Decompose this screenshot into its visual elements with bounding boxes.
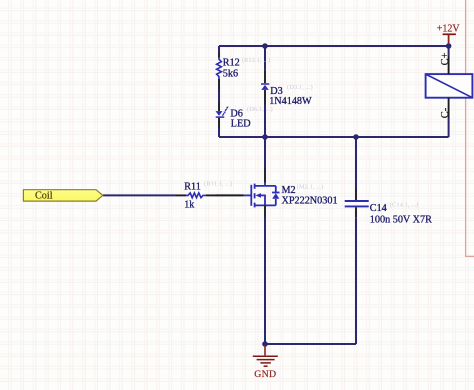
svg-text:(R12.1, ...): (R12.1, ...) (242, 57, 271, 64)
wire gate between R11 and M2 (216, 194, 244, 196)
wire C14 branch upper (355, 137, 357, 189)
wire gate from port (103, 194, 176, 196)
resistor R11 (186, 193, 206, 198)
svg-text:(R11.1, ...): (R11.1, ...) (204, 181, 232, 188)
transistor M2 source pin (264, 205, 266, 217)
wire source vertical (264, 217, 266, 344)
node junction +12V relay (446, 43, 452, 49)
wire left branch lower (218, 128, 220, 137)
diode D3 (261, 84, 269, 90)
svg-text:(D6.1, ...): (D6.1, ...) (247, 106, 273, 113)
svg-text:1N4148W: 1N4148W (269, 96, 312, 107)
resistor R11 pins (176, 194, 216, 196)
svg-text:+12V: +12V (437, 24, 461, 35)
wire relay C- to drain rail (448, 118, 450, 137)
sheet border (frame) (466, 0, 474, 256)
transistor M2 gate lead (244, 194, 252, 196)
wire drain vertical (264, 137, 266, 168)
wire top +12V rail (219, 45, 449, 47)
svg-text:100n 50V X7R: 100n 50V X7R (370, 215, 432, 226)
power +12V (437, 24, 461, 44)
svg-text:5k6: 5k6 (223, 69, 238, 80)
relay pin C+ (448, 56, 450, 74)
wire bottom rail to GND (265, 343, 356, 345)
wire relay C+ stub (448, 46, 450, 56)
svg-text:Coil: Coil (35, 191, 53, 202)
resistor R12 (217, 58, 222, 80)
svg-text:R11: R11 (184, 182, 201, 193)
relay coil (426, 74, 473, 98)
node junction GND (262, 341, 268, 347)
svg-text:(C14.1, ...): (C14.1, ...) (390, 201, 419, 208)
wire C14 branch lower (355, 217, 357, 344)
transistor M2 drain pin (264, 168, 266, 183)
svg-text:LED: LED (231, 119, 251, 130)
wire left branch middle (218, 90, 220, 103)
svg-text:M2: M2 (282, 185, 296, 196)
node junction top D3 (262, 43, 268, 49)
svg-text:C14: C14 (370, 203, 387, 214)
svg-text:GND: GND (254, 369, 276, 380)
ground GND (253, 345, 278, 380)
svg-text:(M2.1, ...): (M2.1, ...) (297, 184, 324, 191)
wire bottom of LED branch (219, 136, 265, 138)
capacitor C14 (345, 201, 369, 206)
transistor M2 body diode triangle (272, 193, 279, 199)
diode D3 pins (264, 69, 266, 104)
svg-text:R12: R12 (223, 58, 240, 69)
LED D6 (216, 106, 229, 117)
relay pin C- (448, 98, 450, 118)
wire left branch upper (218, 46, 220, 53)
svg-text:C-: C- (440, 107, 451, 118)
node junction drain rail (262, 134, 268, 140)
node junction C14 top (353, 134, 359, 140)
svg-text:1k: 1k (184, 199, 195, 210)
svg-text:(D3.1, ...): (D3.1, ...) (287, 84, 313, 91)
LED D6 pins (218, 102, 220, 128)
port Coil (23, 190, 102, 202)
transistor M2 source arrow (255, 193, 261, 198)
resistor R12 pins (218, 53, 220, 90)
wire D3 branch upper (264, 46, 266, 69)
svg-text:C+: C+ (440, 52, 451, 65)
wire drain rail (265, 136, 449, 138)
capacitor C14 pins (355, 189, 357, 217)
wire D3 branch lower (264, 105, 266, 138)
transistor M2 (N-MOSFET) (251, 183, 279, 208)
svg-text:XP222N0301: XP222N0301 (282, 196, 338, 207)
